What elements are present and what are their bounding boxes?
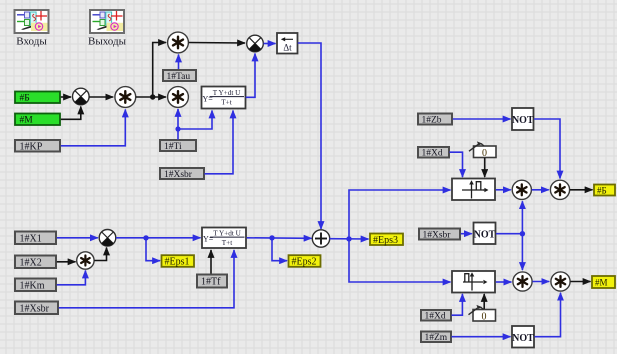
wire 1#Tau up to M3 (blue) [178,55,180,70]
wire comparator to multiplier (black) [89,96,113,98]
svg-text:Y=: Y= [203,95,214,104]
svg-text:T Y+dt U: T Y+dt U [213,89,241,97]
wire adder to J4 and #Eps3 (blue) [330,238,369,240]
output tag #Eps1 (yellow) [162,255,195,267]
wire R1 to M5 (blue) [496,189,511,191]
wire M6 to output #Б (black) [570,189,593,191]
subsystem icon "Выходы" [88,10,127,48]
svg-text:1#Tau: 1#Tau [167,72,191,82]
svg-text:#Eps2: #Eps2 [292,257,317,268]
svg-text:1#Ti: 1#Ti [164,142,182,152]
multiplier M7 (asterisk circle) [513,272,532,291]
svg-text:1#Zb: 1#Zb [422,116,442,126]
wire 1#X2 to multiplier M4 (black) [57,261,76,263]
svg-text:NOT: NOT [512,333,534,344]
svg-text:T+t: T+t [222,239,232,247]
comparator U3 (circle with X, minus bottom) [99,230,116,247]
delay block Δt [277,33,298,54]
tag 1#X1 (gray) [15,232,56,245]
subsystem icon "Входы" [15,10,49,48]
multiplier M8 (asterisk circle) [551,272,570,291]
output tag #М (yellow) [592,276,615,288]
wire 1#Zm to NOT3 (blue) [452,336,511,338]
junction node J5 [520,231,525,236]
tag 1#KP (gray) [15,140,60,153]
wire M3 to top comparator (black) [189,42,245,45]
svg-text:1#Zm: 1#Zm [425,333,448,343]
wire 1#Zb to NOT1 (blue) [453,118,511,120]
tag 1#X2 (gray) [15,256,56,269]
wire multiplier M1 to M2 with junction (black) [136,96,166,98]
wire NOT1 down to M6 (blue) [534,119,560,179]
svg-text:T Y+dt U: T Y+dt U [213,230,241,238]
relay block R2 (hysteresis mirrored) [452,271,495,293]
wire filter W1 output up to comparator U2 (blue) [246,54,255,98]
input tag #Б (green) [15,92,60,104]
svg-text:NOT: NOT [474,230,496,241]
tag 1#Tau (gray) [163,70,196,82]
svg-text:Выходы: Выходы [88,36,127,48]
switch block SW2 with 0 [469,305,496,323]
tag 1#Xd bottom (gray) [421,310,451,322]
svg-text:#Eps3: #Eps3 [373,235,398,246]
wire U3 to filter W2 (blue) [116,237,201,239]
wire 1#Tf up to filter W2 (black) [210,250,212,274]
adder S1 (plus circle) [312,230,329,247]
multiplier M4 (asterisk circle) [77,252,94,269]
block NOT3 [512,326,534,348]
svg-text:#Б: #Б [20,94,30,104]
svg-text:#М: #М [20,116,34,126]
svg-text:1#Xd: 1#Xd [422,149,443,159]
wire #М to comparator bottom (black) [61,107,81,120]
wire 1#Xsbr to NOT2 (blue) [461,233,472,235]
tag 1#Xsbr bottom-left (gray) [15,302,58,315]
relay block R1 (hysteresis) [452,179,495,201]
wire U2 to delay block (blue) [264,43,276,45]
junction node J1 [150,94,155,99]
svg-text:1#Xsbr: 1#Xsbr [423,231,452,241]
junction node J4 [346,236,351,241]
wire M8 to output #М (black) [570,281,590,283]
wire M4 up to comparator U3 (black) [94,248,106,261]
multiplier M1 (asterisk circle) [115,87,136,108]
wire J4 down to relay R2 (blue) [349,239,451,282]
wire 1#Xsbr to filter t-input (blue) [205,111,234,174]
svg-text:1#X2: 1#X2 [20,258,42,269]
switch block SW1 with 0 [469,141,496,159]
wire NOT3 up to M8 (blue) [535,293,561,337]
svg-text:Δt: Δt [283,43,292,53]
wire 1#Km up to M4 (blue) [57,271,86,285]
wire J2 down to #Eps1 (blue) [146,238,160,261]
svg-text:1#X1: 1#X1 [20,234,42,245]
wire J3 down to #Eps2 (blue) [272,238,287,261]
comparator U2 top (circle with X, minus bottom) [247,35,264,52]
tag 1#Km (gray) [15,279,56,292]
multiplier M3 top (asterisk circle) [168,32,189,53]
wire 1#Xd down to relay R1 (blue) [450,152,463,177]
svg-text:#Б: #Б [597,186,607,196]
filter block W2 Y=(TY+dtU)/(T+t) [202,228,246,249]
svg-text:1#Tf: 1#Tf [201,277,221,288]
wire J4 up to relay R1 (blue) [349,190,451,239]
tag 1#Zm (gray) [421,332,451,344]
wire delay to adder, long elbow down (blue) [298,43,321,229]
wire W2 output to adder (blue) [247,237,312,240]
wire R2 to M7 (blue) [496,281,512,283]
svg-text:1#KP: 1#KP [20,142,43,153]
wire J5 up to M5 (blue) [521,201,523,234]
wire M5 to M6 (blue) [532,189,549,191]
tag 1#Xd top (gray) [418,147,449,159]
wire M7 to M8 (blue) [532,281,549,283]
wire SW2 up to relay R2 (black) [483,294,485,309]
wire 1#Xsbr to filter W2 t-input (blue) [59,250,234,308]
tag 1#Ti (gray) [160,140,196,152]
svg-text:T+t: T+t [221,99,231,107]
filter block W1 Y=(TY+dtU)/(T+t) [202,87,246,109]
multiplier M2 (asterisk circle) [168,87,189,108]
svg-text:Входы: Входы [16,36,47,48]
output tag #Eps3 (yellow) [370,234,403,247]
svg-text:1#Xsbr: 1#Xsbr [20,304,50,315]
tag 1#Tf (gray) [197,275,227,288]
block NOT1 [512,108,534,130]
wire 1#KP up to M1 (blue) [61,110,126,146]
svg-text:#Eps1: #Eps1 [165,257,190,268]
wire 1#Xd up to relay R2 (blue) [452,294,463,315]
comparator U1 (circle with X, minus bottom) [73,88,90,105]
tag 1#Zb (gray) [418,114,452,126]
junction node J3 [269,235,274,240]
wire 1#Ti split to M2 and filter (blue) [177,109,179,140]
wire SW1 down to relay R1 (black) [484,158,486,177]
multiplier M6 (asterisk circle) [550,180,569,199]
output tag #Б (yellow) [594,185,615,196]
svg-text:1#Xd: 1#Xd [425,312,446,322]
input tag #М (green) [15,114,60,126]
block NOT2 [474,223,496,245]
tag 1#Xsbr right (gray) [419,229,460,241]
tag 1#Xsbr top-left (gray) [160,168,204,180]
junction node J2 [143,235,148,240]
wire 1#X1 to comparator U3 (blue) [57,237,98,239]
wire junction up to top multiplier (black) [153,43,166,97]
wire #Б to comparator (black) [61,96,71,98]
svg-text:1#Xsbr: 1#Xsbr [164,170,193,180]
wire J5 down to M7 (blue) [521,234,523,270]
svg-text:Y=: Y= [203,235,214,244]
svg-text:NOT: NOT [512,115,534,126]
wire NOT2 to junction J5 (blue) [496,233,522,235]
multiplier M5 (asterisk circle) [512,180,531,199]
svg-text:#М: #М [595,278,608,288]
svg-text:1#Km: 1#Km [20,281,45,292]
output tag #Eps2 (yellow) [289,255,321,267]
junction node on Ti wire [175,126,180,131]
